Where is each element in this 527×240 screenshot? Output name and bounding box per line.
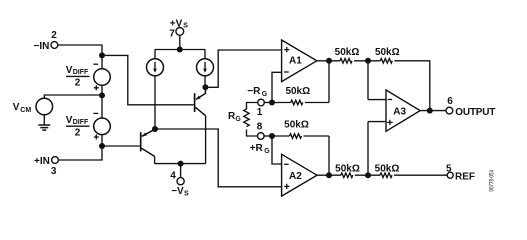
svg-text:50kΩ: 50kΩ xyxy=(285,86,310,97)
wire R3 to node Y xyxy=(355,174,380,176)
resistor R6 50k xyxy=(290,134,302,139)
transistor Q1 xyxy=(195,87,206,115)
svg-text:2: 2 xyxy=(75,78,81,89)
svg-text:6: 6 xyxy=(447,96,453,107)
resistor R1 50k xyxy=(340,59,352,64)
ground xyxy=(38,115,50,130)
node N2 xyxy=(269,133,275,139)
terminal pin 6 (OUTPUT) xyxy=(446,96,495,118)
wire Q2 collector to lower rail xyxy=(154,156,156,163)
wire J3 to Q2 base xyxy=(102,145,140,147)
svg-text:+IN: +IN xyxy=(34,156,50,167)
wire rail to -VS terminal xyxy=(180,164,182,178)
wire N1 to R5 xyxy=(272,102,291,104)
node Y xyxy=(365,172,371,178)
wire RG resistor to pin8 xyxy=(247,130,258,137)
node A3 output xyxy=(427,108,433,114)
svg-text:DIFF: DIFF xyxy=(73,69,89,76)
wire R4 to REF terminal xyxy=(394,174,447,176)
node X xyxy=(365,58,371,64)
wire I2 to Q1 emitter node xyxy=(204,76,206,88)
svg-text:7: 7 xyxy=(169,28,175,39)
svg-text:50kΩ: 50kΩ xyxy=(335,163,360,174)
source VDIFF/2 upper xyxy=(66,64,110,90)
label RG xyxy=(228,111,241,123)
terminal pin 7 (+VS) xyxy=(169,18,188,39)
node Q2 emitter xyxy=(152,126,158,132)
resistor R5 50k xyxy=(291,100,303,105)
wire +IN to J3 xyxy=(58,146,102,160)
wire +VS to rail xyxy=(179,35,181,49)
wire VDIFF2 to J3 xyxy=(101,135,103,146)
svg-text:G: G xyxy=(264,148,270,155)
wire R5 to A1 output xyxy=(305,61,329,103)
wire pin1 to RG resistor xyxy=(247,103,258,110)
svg-text:50kΩ: 50kΩ xyxy=(375,163,400,174)
node supply rail junction xyxy=(177,47,183,53)
svg-text:S: S xyxy=(184,190,189,197)
svg-text:+R: +R xyxy=(250,143,264,154)
wire node Y to A3 + input xyxy=(368,122,386,176)
wire R2 to A3 output feedback xyxy=(394,61,430,111)
terminal pin 1 (-RG) xyxy=(247,86,267,118)
wire J1 to VDIFF1 xyxy=(101,55,103,68)
svg-text:OUTPUT: OUTPUT xyxy=(455,107,495,118)
svg-text:REF: REF xyxy=(455,171,475,182)
svg-text:1: 1 xyxy=(257,107,263,118)
node A2 output xyxy=(326,172,332,178)
wire R1 to node X xyxy=(354,60,380,62)
wire lower rail xyxy=(155,163,206,165)
terminal pin 3 (+IN) xyxy=(34,156,58,177)
svg-text:G: G xyxy=(235,116,241,123)
resistor R3 50k xyxy=(341,173,353,178)
svg-text:50kΩ: 50kΩ xyxy=(284,120,309,131)
wire node X to A3 - input xyxy=(368,61,386,100)
resistor R4 50k xyxy=(380,173,392,178)
wire pin1 to node N1 xyxy=(264,102,272,104)
op-amp A3 xyxy=(386,90,420,131)
wire -IN to node J1 xyxy=(58,45,102,53)
svg-text:8: 8 xyxy=(257,122,263,133)
terminal pin 2 (-IN) xyxy=(34,30,58,52)
current source I1 xyxy=(147,59,164,76)
node J3 xyxy=(99,143,105,149)
node N1 xyxy=(269,100,275,106)
wire N2 to R6 xyxy=(272,135,290,137)
wire A3 output xyxy=(420,110,446,112)
wire J1 to Q1 base xyxy=(102,55,194,104)
terminal pin 8 (+RG) xyxy=(250,122,271,156)
svg-text:A3: A3 xyxy=(393,106,406,117)
wire Q2 emitter to A2 + input xyxy=(155,129,282,187)
current source I2 xyxy=(197,59,214,76)
wire J2 to VCM xyxy=(44,95,102,98)
resistor RG xyxy=(244,109,249,127)
wire I1 to Q2 emitter node xyxy=(154,76,156,129)
wire pin8 to node N2 xyxy=(264,135,272,137)
svg-text:50kΩ: 50kΩ xyxy=(375,47,400,58)
wire N1 to A1 - input xyxy=(272,72,282,102)
node -VS junction xyxy=(178,161,184,167)
wire rail to current sources xyxy=(155,50,205,59)
svg-text:CM: CM xyxy=(20,107,31,114)
wire J2 to VDIFF2 xyxy=(101,95,103,118)
svg-text:−IN: −IN xyxy=(34,41,50,52)
svg-text:50kΩ: 50kΩ xyxy=(335,47,360,58)
svg-text:DIFF: DIFF xyxy=(73,119,89,126)
wire Q1 collector to lower rail xyxy=(205,116,207,164)
node Q1 emitter xyxy=(202,84,208,90)
wire Q1 emitter to A1 + input xyxy=(205,50,281,87)
resistor R2 50k xyxy=(380,59,392,64)
svg-text:3: 3 xyxy=(51,166,57,177)
source VCM xyxy=(13,98,53,115)
svg-text:V: V xyxy=(13,102,20,113)
op-amp A1 xyxy=(282,40,317,82)
wire VDIFF1 to J2 xyxy=(101,85,103,95)
svg-text:00778-054: 00778-054 xyxy=(490,170,496,192)
wire R6 to A2 output xyxy=(304,136,330,175)
wire N2 to A2 - input xyxy=(272,136,282,164)
node A1 output xyxy=(326,58,332,64)
svg-text:A2: A2 xyxy=(289,171,302,182)
terminal pin 5 (REF) xyxy=(446,164,475,183)
node J1 xyxy=(99,52,105,58)
op-amp A2 xyxy=(282,154,317,196)
svg-text:2: 2 xyxy=(75,127,81,138)
source VDIFF/2 lower xyxy=(66,113,110,139)
svg-text:A1: A1 xyxy=(289,55,302,66)
svg-text:−R: −R xyxy=(247,86,261,97)
terminal pin 4 (-VS) xyxy=(170,171,189,198)
node J2 xyxy=(99,92,105,98)
transistor Q2 xyxy=(141,129,155,156)
wire A1 output xyxy=(317,60,340,62)
svg-text:5: 5 xyxy=(446,164,452,175)
svg-text:4: 4 xyxy=(170,171,176,182)
svg-text:2: 2 xyxy=(51,30,57,41)
svg-text:−V: −V xyxy=(171,186,184,197)
wire A2 output xyxy=(317,174,341,176)
svg-text:S: S xyxy=(183,23,188,30)
wire supply rail xyxy=(155,49,205,51)
svg-text:G: G xyxy=(262,91,268,98)
